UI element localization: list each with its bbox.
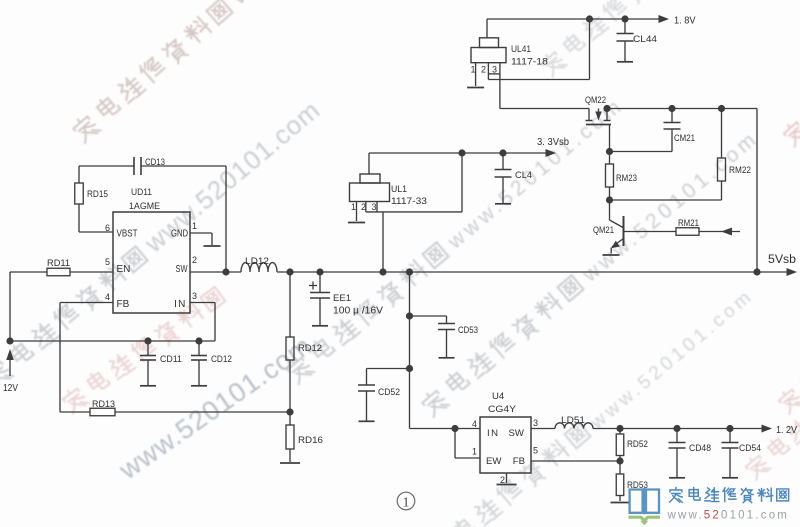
svg-text:RD12: RD12 [298, 343, 322, 354]
svg-text:4: 4 [105, 292, 110, 302]
svg-text:CD52: CD52 [378, 387, 400, 398]
svg-text:1: 1 [192, 221, 197, 231]
svg-text:6: 6 [105, 223, 110, 233]
svg-text:3. 3Vsb: 3. 3Vsb [537, 137, 569, 148]
svg-text:CM21: CM21 [674, 133, 695, 144]
svg-text:5Vsb: 5Vsb [768, 254, 796, 266]
svg-text:IN: IN [174, 299, 186, 310]
svg-text:UL41: UL41 [511, 44, 531, 55]
svg-text:3: 3 [533, 418, 538, 428]
svg-text:CG4Y: CG4Y [488, 404, 517, 415]
svg-text:3: 3 [372, 202, 377, 212]
svg-text:2: 2 [481, 65, 486, 75]
svg-text:VBST: VBST [117, 229, 138, 240]
svg-text:1. 2V: 1. 2V [776, 425, 797, 436]
svg-text:CD54: CD54 [739, 443, 762, 454]
svg-text:RM22: RM22 [729, 165, 751, 176]
svg-text:QM21: QM21 [593, 225, 614, 236]
svg-text:1117-18: 1117-18 [511, 57, 548, 68]
svg-text:RM23: RM23 [616, 173, 637, 184]
svg-text:FB: FB [117, 299, 130, 310]
svg-text:SW: SW [509, 428, 525, 439]
svg-text:U4: U4 [492, 391, 505, 402]
svg-text:QM22: QM22 [585, 95, 606, 106]
svg-text:CD13: CD13 [145, 157, 165, 168]
svg-text:2: 2 [192, 255, 197, 265]
svg-text:RM21: RM21 [678, 218, 699, 229]
svg-text:1. 8V: 1. 8V [674, 16, 696, 27]
svg-text:CD12: CD12 [211, 354, 232, 365]
svg-text:CD11: CD11 [160, 354, 182, 365]
svg-text:EN: EN [117, 264, 131, 275]
svg-text:SW: SW [176, 264, 188, 275]
svg-text:3: 3 [192, 291, 197, 301]
svg-text:www.520101.com: www.520101.com [667, 510, 790, 522]
svg-text:LD51: LD51 [561, 415, 585, 426]
svg-text:UD11: UD11 [131, 187, 152, 198]
svg-text:2: 2 [500, 475, 505, 485]
svg-text:100 μ /16V: 100 μ /16V [333, 306, 383, 317]
svg-text:5: 5 [105, 257, 110, 267]
svg-text:LD12: LD12 [245, 256, 269, 267]
svg-text:4: 4 [472, 419, 477, 429]
svg-text:3: 3 [492, 65, 497, 75]
svg-text:IN: IN [487, 428, 500, 439]
svg-text:UL1: UL1 [391, 184, 407, 195]
svg-text:12V: 12V [3, 382, 18, 394]
svg-text:RD52: RD52 [627, 439, 648, 450]
svg-text:CD48: CD48 [689, 443, 711, 454]
svg-text:CL4: CL4 [515, 170, 533, 181]
svg-text:FB: FB [513, 456, 525, 467]
svg-text:RD16: RD16 [298, 435, 323, 446]
svg-text:RD11: RD11 [47, 258, 70, 269]
svg-text:RD13: RD13 [92, 399, 115, 410]
svg-text:CL44: CL44 [633, 34, 658, 45]
svg-text:EE1: EE1 [333, 293, 351, 304]
svg-text:1: 1 [472, 447, 477, 457]
svg-text:GND: GND [171, 229, 188, 240]
svg-text:1AGME: 1AGME [129, 201, 160, 212]
svg-text:RD15: RD15 [87, 189, 108, 200]
svg-text:1: 1 [403, 495, 410, 510]
svg-text:1: 1 [351, 202, 356, 212]
svg-text:1117-33: 1117-33 [391, 196, 427, 207]
svg-text:1: 1 [471, 65, 476, 75]
svg-text:EW: EW [486, 456, 502, 467]
svg-text:CD53: CD53 [458, 325, 478, 336]
svg-text:5: 5 [533, 446, 538, 456]
